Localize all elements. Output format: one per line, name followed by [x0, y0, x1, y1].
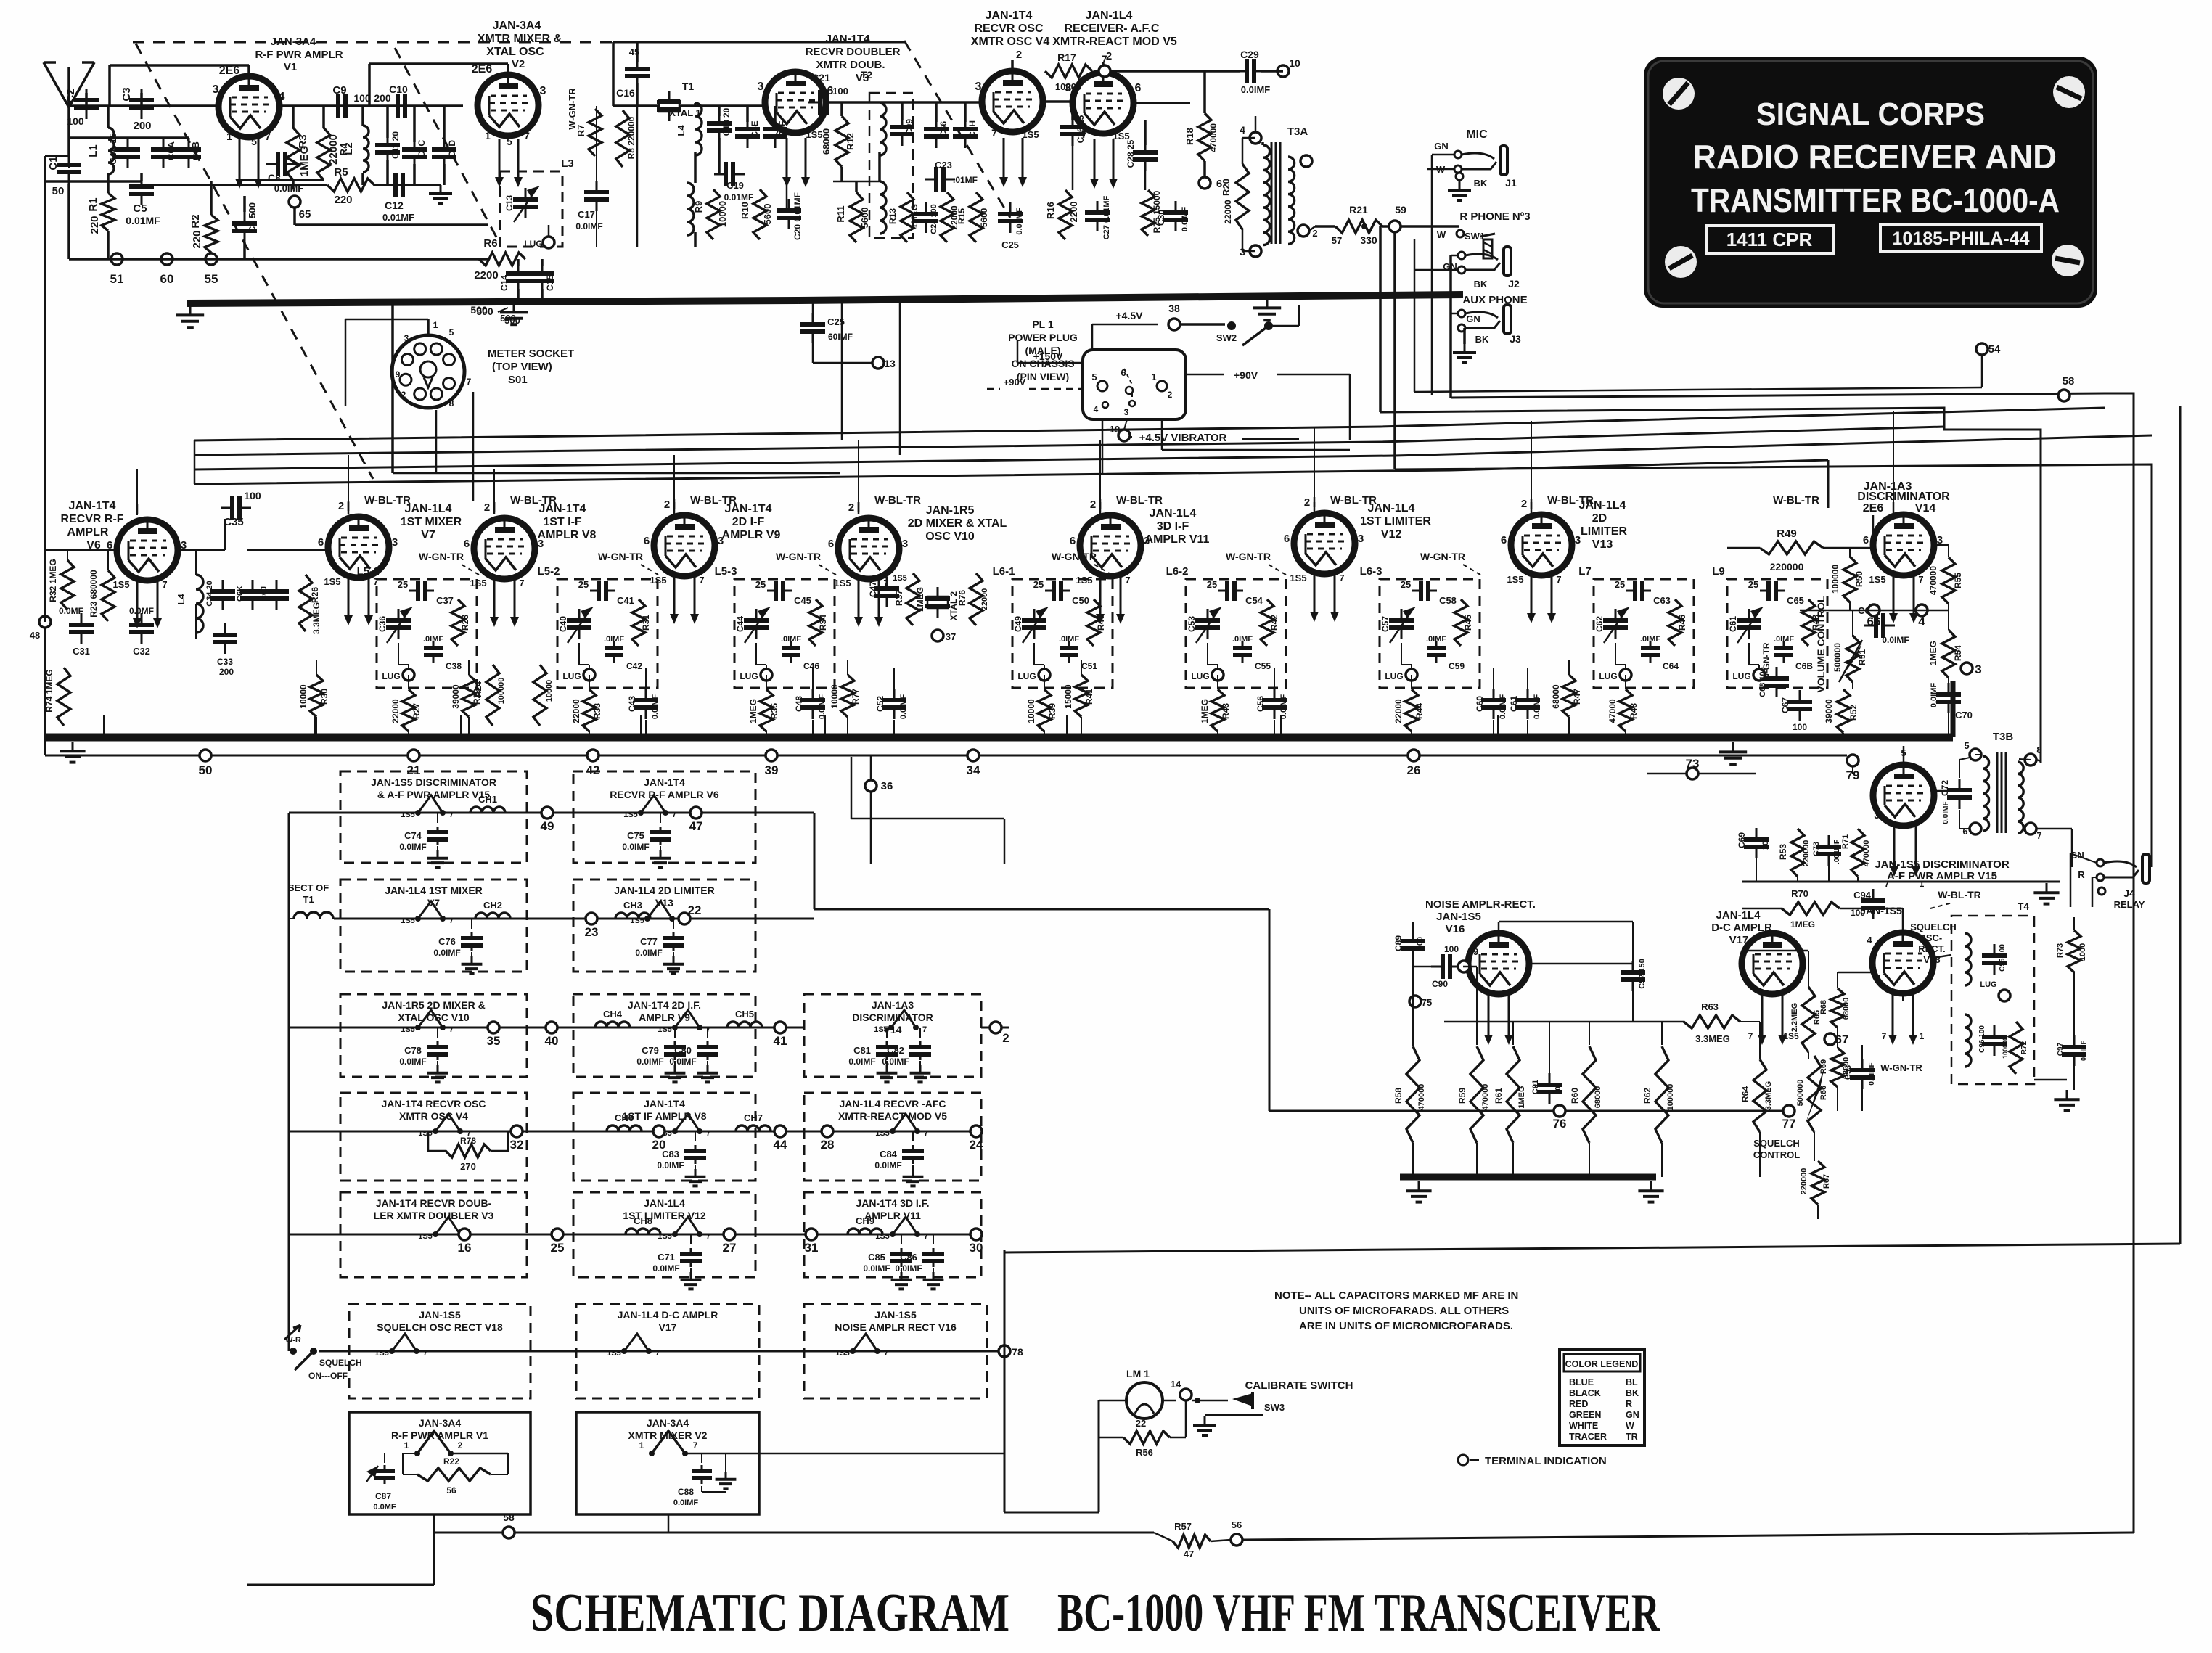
capacitor C89 — [1412, 930, 1414, 941]
capacitor C50 — [1045, 590, 1054, 592]
svg-text:C37: C37 — [436, 595, 454, 606]
svg-text:200: 200 — [219, 667, 234, 677]
ground — [707, 1061, 708, 1065]
capacitor C97 — [2073, 1035, 2076, 1047]
capacitor C6B — [1783, 641, 1785, 648]
svg-text:220: 220 — [191, 230, 203, 248]
dashed section line D2 — [395, 48, 500, 244]
tube V4 — [982, 71, 1043, 132]
svg-text:1: 1 — [226, 131, 232, 142]
capacitor C29 — [1235, 70, 1247, 73]
svg-text:R40: R40 — [1096, 615, 1106, 631]
svg-text:CH6: CH6 — [615, 1112, 634, 1123]
svg-text:BK: BK — [1475, 334, 1489, 345]
wires top-left grid — [69, 104, 220, 107]
svg-text:0.0IMF: 0.0IMF — [575, 221, 602, 231]
terminal 30 — [970, 1229, 982, 1240]
svg-text:0.0IMF: 0.0IMF — [433, 948, 460, 958]
capacitor C30 — [1175, 201, 1177, 213]
terminal 73 — [1647, 773, 1756, 775]
resistor R30 — [316, 660, 317, 675]
capacitor C78 — [437, 1028, 438, 1038]
svg-text:C96 100: C96 100 — [1978, 1025, 1986, 1053]
capacitor C6H — [964, 118, 967, 129]
svg-text:7: 7 — [162, 579, 167, 590]
svg-text:56: 56 — [1232, 1519, 1242, 1530]
svg-text:L5-3: L5-3 — [715, 565, 737, 578]
svg-text:10000: 10000 — [1055, 81, 1081, 92]
capacitor C88 — [701, 1465, 703, 1471]
capacitor C65 — [1760, 590, 1769, 592]
tube symbol — [435, 1114, 460, 1131]
wire squelch row — [1269, 1110, 1789, 1112]
svg-text:C61: C61 — [1728, 616, 1738, 632]
resistor R63 — [1684, 1015, 1740, 1028]
svg-text:9: 9 — [396, 369, 401, 380]
svg-text:C34 20: C34 20 — [205, 581, 214, 606]
svg-text:R52: R52 — [1848, 705, 1859, 721]
bottom long wire — [1154, 1533, 1173, 1541]
svg-text:C21: C21 — [811, 72, 830, 83]
svg-text:R66: R66 — [1819, 1086, 1828, 1100]
svg-text:C7 500: C7 500 — [247, 202, 258, 233]
svg-text:R20: R20 — [1221, 179, 1232, 196]
svg-text:NOISE AMPLR-RECT.: NOISE AMPLR-RECT. — [1425, 898, 1536, 911]
capacitor C4A — [127, 138, 129, 149]
transformer T4 box — [1951, 916, 2034, 1084]
terminal indication legend — [1458, 1455, 1468, 1465]
coil L5a — [880, 103, 886, 155]
plate box 1411 CPR — [1706, 226, 1833, 253]
svg-text:470000: 470000 — [1208, 123, 1218, 152]
svg-text:C61: C61 — [1509, 696, 1519, 712]
filament arrows V2 — [499, 139, 501, 179]
resistor R31 — [632, 599, 645, 646]
svg-text:L5-2: L5-2 — [538, 565, 560, 578]
svg-text:3: 3 — [392, 536, 398, 549]
svg-text:C53: C53 — [1187, 616, 1197, 632]
function box V16 — [804, 1304, 987, 1398]
svg-text:34: 34 — [967, 763, 980, 777]
terminal 40 — [546, 1022, 557, 1033]
resistor R9 — [707, 189, 720, 239]
svg-text:J2: J2 — [1508, 278, 1520, 290]
svg-text:59: 59 — [1395, 204, 1406, 216]
svg-text:RECVR DOUBLER: RECVR DOUBLER — [806, 46, 901, 58]
svg-text:3: 3 — [1144, 535, 1150, 547]
tube symbol V2b — [652, 1431, 685, 1453]
svg-text:4: 4 — [1240, 124, 1245, 136]
tube symbol — [418, 1010, 443, 1028]
ground — [437, 1061, 438, 1065]
svg-text:V7: V7 — [421, 529, 435, 541]
resistor R44 — [1411, 675, 1412, 689]
resistor R23 — [102, 570, 115, 621]
tube V17 — [1742, 933, 1803, 994]
filament arrows V11 — [1099, 575, 1102, 615]
capacitor C71 — [690, 1234, 692, 1244]
svg-text:0.0IMF: 0.0IMF — [622, 842, 649, 852]
wire tube top feed — [1531, 499, 1533, 509]
svg-text:0.01MF: 0.01MF — [724, 192, 754, 202]
svg-text:2: 2 — [458, 1440, 463, 1451]
svg-text:R PHONE Nº3: R PHONE Nº3 — [1459, 210, 1530, 223]
svg-text:R63: R63 — [1701, 1001, 1719, 1012]
svg-text:1MEG: 1MEG — [298, 146, 311, 177]
svg-text:BL: BL — [1626, 1377, 1638, 1387]
svg-text:ARE IN UNITS OF MICROMICROFARA: ARE IN UNITS OF MICROMICROFARADS. — [1299, 1320, 1513, 1332]
svg-text:L6-3: L6-3 — [1360, 565, 1382, 578]
svg-text:6: 6 — [1501, 534, 1507, 546]
resistor R50 — [1843, 557, 1856, 602]
ground — [72, 742, 74, 751]
squelch switch — [290, 1348, 297, 1355]
svg-text:CALIBRATE SWITCH: CALIBRATE SWITCH — [1245, 1379, 1353, 1392]
svg-text:50: 50 — [52, 185, 65, 197]
resistor R15 — [970, 192, 983, 242]
svg-text:3: 3 — [902, 538, 908, 550]
svg-text:0.0IMF: 0.0IMF — [399, 842, 426, 852]
svg-text:C16: C16 — [616, 87, 635, 99]
svg-text:100000: 100000 — [1830, 565, 1840, 594]
capacitor C31 — [81, 613, 83, 625]
svg-text:C6D: C6D — [447, 140, 457, 157]
capacitor C66 — [1864, 625, 1876, 627]
svg-text:220: 220 — [89, 216, 101, 234]
ground — [2046, 883, 2048, 893]
svg-text:R72: R72 — [2020, 1041, 2028, 1054]
svg-text:0.0MF: 0.0MF — [129, 606, 154, 616]
svg-text:C11 20: C11 20 — [390, 131, 401, 159]
svg-text:GN: GN — [1466, 313, 1480, 324]
terminal 2 — [990, 1022, 1001, 1033]
svg-text:AUX PHONE: AUX PHONE — [1462, 294, 1527, 306]
resistor R13 — [901, 192, 914, 242]
coil CH8 — [626, 1229, 660, 1234]
svg-text:C41: C41 — [617, 595, 634, 606]
function box V14 — [804, 994, 981, 1077]
svg-text:6: 6 — [1121, 367, 1126, 378]
terminal 20 — [653, 1125, 665, 1137]
capacitor C19 — [714, 173, 726, 176]
top ground bus — [187, 300, 798, 303]
svg-text:C70: C70 — [1955, 710, 1973, 721]
svg-text:C33: C33 — [217, 657, 233, 667]
tube symbol — [853, 1334, 877, 1351]
svg-text:7: 7 — [373, 576, 378, 587]
svg-text:5: 5 — [507, 136, 512, 147]
svg-text:V13: V13 — [1592, 538, 1613, 551]
resistor R11 — [850, 192, 863, 242]
svg-text:2: 2 — [1521, 498, 1527, 510]
function box V15 — [340, 771, 527, 863]
capacitor C11 — [387, 134, 389, 145]
svg-text:.0IMF: .0IMF — [1774, 635, 1794, 644]
coil CH5 — [727, 1022, 762, 1028]
plate box 10185-PHILA-44 — [1880, 224, 2041, 252]
plate screw bottom-left — [1665, 246, 1697, 278]
tube V16 — [1468, 933, 1529, 994]
terminal 79 wire — [1852, 766, 1853, 774]
svg-text:C92 150: C92 150 — [1638, 959, 1647, 989]
resistor R56 — [1123, 1431, 1170, 1444]
svg-text:AMPLR: AMPLR — [67, 526, 109, 538]
svg-text:7: 7 — [1125, 575, 1130, 586]
svg-text:40: 40 — [545, 1034, 559, 1048]
terminal 58 wire — [434, 1532, 1154, 1534]
terminal 50 — [200, 750, 211, 761]
tube symbol — [435, 1217, 460, 1234]
svg-text:R23 680000: R23 680000 — [89, 570, 99, 618]
filament arrows V12 — [1314, 573, 1316, 613]
svg-text:R58: R58 — [1393, 1088, 1404, 1104]
svg-text:0.0IMF: 0.0IMF — [651, 694, 660, 720]
wire row6 — [319, 1350, 1004, 1353]
svg-text:C12: C12 — [385, 200, 404, 211]
svg-text:0.0IMF: 0.0IMF — [1942, 801, 1950, 824]
svg-text:7: 7 — [265, 131, 271, 142]
svg-text:66: 66 — [1867, 615, 1881, 628]
svg-text:51: 51 — [110, 272, 124, 286]
svg-text:0.0MF: 0.0MF — [373, 1503, 396, 1512]
coil L4a — [695, 103, 702, 155]
lamp LM1 — [1126, 1382, 1163, 1419]
svg-text:35: 35 — [487, 1034, 501, 1048]
resistor R53 — [1791, 829, 1804, 877]
svg-text:.001MF: .001MF — [1833, 840, 1841, 864]
svg-text:XMTR OSC V4: XMTR OSC V4 — [399, 1110, 468, 1122]
capacitor C64 — [1650, 641, 1652, 648]
svg-text:1MEG: 1MEG — [1200, 699, 1210, 723]
crystal XTAL2 — [937, 587, 939, 599]
svg-text:C24 100: C24 100 — [930, 204, 938, 234]
svg-text:JAN-1T4: JAN-1T4 — [644, 1098, 685, 1109]
svg-text:W-BL-TR: W-BL-TR — [1773, 494, 1819, 506]
svg-text:POWER PLUG: POWER PLUG — [1008, 332, 1078, 343]
svg-text:R5: R5 — [334, 166, 348, 179]
svg-text:JAN-3A4: JAN-3A4 — [271, 36, 316, 48]
svg-text:R17: R17 — [1057, 52, 1076, 63]
wires LM1 — [1099, 1400, 1126, 1402]
svg-text:7: 7 — [1882, 1031, 1887, 1041]
svg-text:1MEG: 1MEG — [1790, 919, 1815, 930]
svg-text:JAN-1L4: JAN-1L4 — [1716, 909, 1761, 922]
svg-text:60IMF: 60IMF — [828, 332, 853, 342]
svg-text:W-BL-TR: W-BL-TR — [1547, 494, 1594, 506]
svg-text:C6B: C6B — [190, 141, 201, 160]
svg-text:6: 6 — [1962, 826, 1967, 837]
svg-text:R13: R13 — [888, 208, 898, 224]
terminal 36 — [870, 755, 872, 864]
svg-text:5: 5 — [449, 327, 454, 337]
svg-text:W-GN-TR: W-GN-TR — [1420, 551, 1465, 562]
terminal 48 — [39, 616, 51, 628]
svg-text:7: 7 — [1918, 574, 1923, 585]
dashed top rail — [133, 41, 904, 44]
svg-text:C66: C66 — [938, 121, 949, 137]
svg-text:C6K: C6K — [236, 586, 245, 602]
svg-text:C97: C97 — [2057, 1042, 2065, 1056]
svg-text:R15: R15 — [957, 208, 967, 224]
terminal 35 — [488, 1022, 499, 1033]
svg-text:0.0IMF: 0.0IMF — [652, 1263, 679, 1273]
trimmer capacitor C62 — [1615, 609, 1617, 620]
svg-text:W-BL-TR: W-BL-TR — [690, 494, 737, 506]
svg-text:2E6: 2E6 — [472, 63, 493, 75]
wires V14 area — [1727, 547, 1760, 549]
terminal 4 — [1916, 604, 1928, 616]
svg-text:1: 1 — [1151, 372, 1156, 382]
resistor R21 — [1335, 220, 1382, 233]
svg-text:L3: L3 — [561, 157, 574, 170]
capacitor C60 — [1493, 668, 1494, 689]
svg-text:R74 1MEG: R74 1MEG — [44, 669, 54, 712]
capacitor C6C — [414, 138, 416, 149]
svg-text:+90V: +90V — [1004, 377, 1026, 387]
svg-text:44: 44 — [774, 1138, 787, 1152]
svg-text:V14: V14 — [1915, 502, 1936, 514]
svg-text:1: 1 — [639, 1440, 644, 1451]
function box V13 — [573, 879, 755, 972]
filament arrows V14 — [1893, 574, 1895, 615]
svg-text:1S5: 1S5 — [1290, 573, 1306, 583]
rail to output transformer — [1380, 408, 2041, 763]
capacitor C6A — [163, 138, 165, 149]
svg-text:0.0MF: 0.0MF — [59, 606, 83, 616]
lug terminal — [1406, 669, 1417, 681]
tube V15 — [1873, 765, 1934, 826]
svg-text:JAN-1L4: JAN-1L4 — [1150, 507, 1197, 520]
ground — [912, 1165, 914, 1169]
terminal 44 — [774, 1125, 786, 1137]
wires V16 — [1412, 956, 1414, 1046]
svg-text:3: 3 — [1358, 533, 1364, 545]
svg-text:C23: C23 — [935, 160, 952, 171]
svg-text:R60: R60 — [1570, 1088, 1580, 1104]
svg-text:C73: C73 — [1812, 842, 1821, 856]
svg-text:3: 3 — [1975, 663, 1981, 676]
LUG lug — [543, 237, 554, 248]
svg-text:0.0IMF: 0.0IMF — [1181, 207, 1189, 232]
svg-text:1MEG: 1MEG — [1928, 641, 1938, 665]
ground — [513, 302, 515, 312]
svg-text:R67: R67 — [1822, 1174, 1831, 1189]
svg-text:LUG: LUG — [1980, 980, 1996, 989]
wire terminal rail — [69, 258, 488, 261]
svg-text:0.0IMF: 0.0IMF — [636, 1057, 663, 1067]
svg-text:C25: C25 — [1001, 239, 1019, 250]
wires C12 rail — [142, 184, 327, 186]
svg-text:PL 1: PL 1 — [1032, 319, 1054, 330]
svg-text:100000: 100000 — [1666, 1084, 1675, 1111]
svg-text:1ST IF AMPLR V8: 1ST IF AMPLR V8 — [622, 1110, 706, 1122]
svg-text:1S5: 1S5 — [834, 578, 851, 588]
svg-text:V2: V2 — [512, 58, 525, 70]
svg-text:C9: C9 — [332, 84, 346, 97]
svg-text:30: 30 — [970, 1241, 983, 1255]
svg-text:BK: BK — [1474, 178, 1488, 189]
capacitor C59 — [1435, 641, 1438, 648]
svg-text:R48: R48 — [1629, 703, 1639, 719]
svg-text:1MEG: 1MEG — [915, 587, 925, 612]
capacitor C7 — [244, 212, 246, 223]
svg-text:MIC: MIC — [1466, 128, 1488, 141]
svg-text:W-GN-TR: W-GN-TR — [598, 551, 643, 562]
coil CH1 — [470, 807, 505, 813]
relay jack J4 — [2097, 859, 2104, 866]
svg-text:JAN-1T4: JAN-1T4 — [69, 500, 116, 512]
svg-text:BC-1000 VHF FM TRANSCEIVER: BC-1000 VHF FM TRANSCEIVER — [1057, 1583, 1660, 1643]
svg-text:C6E: C6E — [750, 120, 760, 137]
trimmer capacitor C53 — [1207, 609, 1209, 620]
svg-text:2: 2 — [1002, 1031, 1009, 1045]
svg-text:C45: C45 — [794, 595, 811, 606]
capacitor C73 — [1828, 835, 1830, 847]
svg-text:R61: R61 — [1494, 1088, 1504, 1104]
svg-text:JAN-1L4 1ST MIXER: JAN-1L4 1ST MIXER — [385, 885, 483, 896]
svg-text:1ST I-F: 1ST I-F — [543, 516, 582, 528]
svg-text:39000: 39000 — [451, 684, 461, 709]
svg-text:R31: R31 — [641, 615, 651, 631]
svg-text:0.0IMF: 0.0IMF — [1930, 683, 1938, 708]
wire feed left — [1089, 908, 1269, 911]
capacitor C90 — [1431, 966, 1443, 968]
svg-text:W-GN-TR: W-GN-TR — [419, 551, 464, 562]
svg-text:200: 200 — [374, 92, 391, 104]
resistor R3 — [287, 128, 300, 180]
svg-text:C81: C81 — [853, 1045, 871, 1056]
svg-text:JAN-1L4: JAN-1L4 — [1086, 9, 1133, 22]
svg-text:4: 4 — [1867, 935, 1872, 946]
coil box L6-1 — [1012, 579, 1113, 688]
coil L4 — [196, 575, 203, 633]
svg-text:6: 6 — [828, 538, 834, 550]
capacitor C2 — [86, 89, 88, 100]
resistor R70 — [1782, 902, 1840, 915]
terminal rail — [45, 755, 1847, 757]
wire tube top feed — [1314, 497, 1316, 507]
svg-text:3: 3 — [1874, 810, 1879, 821]
svg-text:W-R: W-R — [285, 1336, 301, 1345]
crystal XTAL1 — [668, 91, 671, 102]
svg-text:470000: 470000 — [1928, 566, 1938, 595]
svg-text:25: 25 — [578, 579, 589, 590]
svg-text:6: 6 — [464, 538, 470, 550]
svg-text:1S5: 1S5 — [1869, 574, 1885, 585]
svg-text:6: 6 — [1863, 534, 1869, 546]
wire row3 — [289, 1027, 804, 1029]
svg-text:RECVR R-F: RECVR R-F — [60, 513, 123, 525]
svg-text:4: 4 — [1918, 615, 1925, 628]
svg-text:TR: TR — [1626, 1432, 1638, 1442]
ground — [673, 952, 674, 956]
capacitor C52 — [893, 668, 895, 689]
capacitor C6F — [774, 118, 777, 129]
svg-text:20: 20 — [652, 1138, 666, 1152]
function box V6 — [573, 771, 755, 863]
svg-text:R11: R11 — [835, 205, 846, 222]
svg-text:1S5: 1S5 — [1022, 129, 1039, 140]
svg-text:R44: R44 — [1414, 703, 1425, 719]
svg-text:6: 6 — [1070, 535, 1076, 547]
svg-text:0.0IMF: 0.0IMF — [895, 1263, 922, 1273]
svg-text:0.01MF: 0.01MF — [126, 215, 160, 226]
B+ rail 1 — [194, 408, 2105, 440]
filament arrows V9 — [673, 575, 676, 615]
wire tube top feed — [858, 502, 860, 512]
svg-text:R: R — [1626, 1399, 1632, 1409]
svg-text:2E6: 2E6 — [219, 65, 240, 77]
